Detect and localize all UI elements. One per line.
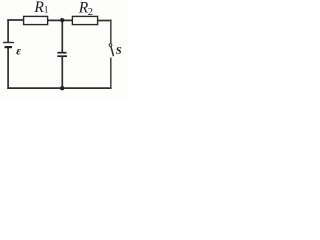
junction dot bottom <box>60 86 64 90</box>
wire capacitor branch upper <box>61 20 63 52</box>
background <box>0 0 127 98</box>
wire top-middle segment between R1 and R2 <box>48 19 73 21</box>
wire bottom segment <box>7 87 111 89</box>
svg-text:S: S <box>116 46 122 57</box>
svg-text:2: 2 <box>88 7 93 18</box>
wire top-left segment <box>7 19 23 21</box>
battery (emf source) long plate <box>3 42 14 44</box>
wire capacitor branch lower <box>61 57 63 89</box>
svg-text:R: R <box>33 0 44 16</box>
switch S terminal circle <box>109 44 112 47</box>
capacitor lower plate <box>57 55 67 57</box>
wire right upper (corner to switch) <box>110 19 112 43</box>
wire top-right segment <box>98 20 112 22</box>
capacitor upper plate <box>57 52 66 54</box>
wire left lower (battery to bottom corner) <box>7 48 9 89</box>
resistor R1 <box>24 16 48 24</box>
wire left upper (corner to battery) <box>7 19 9 42</box>
svg-text:1: 1 <box>44 6 49 16</box>
wire right lower (switch to bottom corner) <box>110 58 112 89</box>
battery short thick plate <box>5 46 12 48</box>
resistor R2 <box>72 16 97 24</box>
switch S blade <box>111 46 114 56</box>
svg-text:ε: ε <box>16 45 21 57</box>
junction dot top (node between R1 and R2) <box>60 18 64 22</box>
